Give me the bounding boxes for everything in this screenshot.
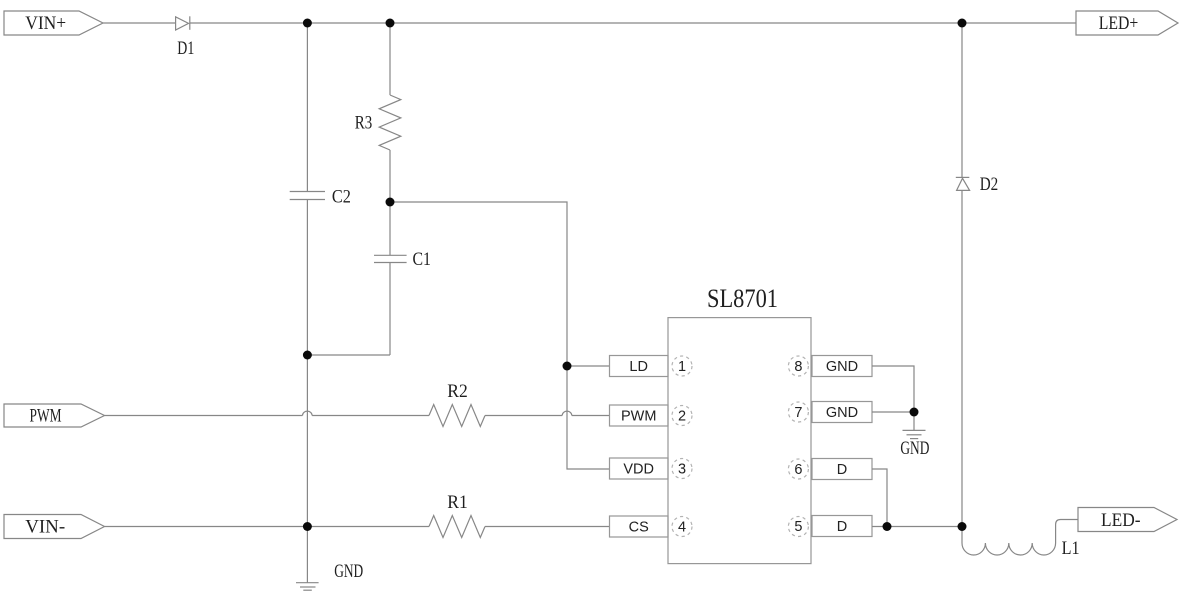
wire VIN+ to D1 — [103, 22, 176, 24]
svg-text:L1: L1 — [1062, 538, 1080, 559]
svg-text:GND: GND — [334, 561, 363, 582]
svg-text:LED+: LED+ — [1099, 13, 1139, 34]
pin 8 GND — [788, 356, 872, 377]
ground at input — [296, 527, 363, 591]
svg-text:4: 4 — [678, 520, 686, 536]
svg-text:3: 3 — [678, 462, 686, 478]
svg-text:SL8701: SL8701 — [707, 284, 778, 313]
svg-text:R3: R3 — [355, 113, 373, 134]
connector LED- — [1078, 508, 1177, 532]
resistor R2 — [429, 381, 485, 427]
svg-text:VDD: VDD — [623, 462, 654, 478]
svg-text:2: 2 — [678, 409, 686, 425]
wire R3 branch vertical x=390 top — [389, 23, 391, 95]
connector VIN- — [4, 515, 105, 539]
svg-text:PWM: PWM — [30, 406, 62, 427]
svg-text:5: 5 — [794, 519, 802, 535]
svg-text:GND: GND — [900, 438, 929, 459]
pin 4 CS — [610, 516, 693, 537]
wire pin 7 to ground node — [872, 411, 914, 413]
wire PWM to pin 2 with hops — [105, 411, 610, 415]
pin 1 LD — [610, 356, 693, 377]
ground GND near IC — [900, 412, 929, 459]
node junction at top rail x=390 — [386, 19, 395, 28]
svg-text:CS: CS — [629, 520, 649, 536]
node junction LD branch — [563, 362, 572, 371]
capacitor C1 — [374, 202, 431, 355]
pin 3 VDD — [610, 458, 693, 479]
svg-text:D: D — [837, 462, 847, 478]
svg-text:C2: C2 — [332, 186, 351, 207]
wire LD branch — [567, 365, 610, 367]
node junction pin5/pin6 — [883, 522, 892, 531]
inductor L1 — [962, 520, 1080, 560]
node junction D2/L1 — [958, 522, 967, 531]
wire input rail vertical x=307 — [306, 23, 308, 527]
svg-text:7: 7 — [794, 405, 802, 421]
svg-text:LED-: LED- — [1101, 510, 1141, 531]
svg-text:D2: D2 — [980, 174, 999, 195]
svg-text:C1: C1 — [412, 249, 431, 270]
connector LED+ — [1076, 11, 1178, 35]
IC U1 SL8701 body — [668, 284, 811, 564]
svg-text:GND: GND — [826, 405, 858, 421]
node junction at top rail x=962 — [958, 19, 967, 28]
svg-text:VIN-: VIN- — [25, 517, 65, 538]
svg-text:GND: GND — [826, 359, 858, 375]
wire VIN- to CS — [105, 526, 610, 528]
svg-text:D: D — [837, 519, 847, 535]
wire C1 bottom to input rail — [307, 354, 390, 356]
pin 2 PWM — [610, 405, 693, 426]
svg-text:LD: LD — [629, 359, 648, 375]
connector PWM — [4, 404, 105, 427]
diode D1 — [176, 16, 195, 59]
resistor R3 — [355, 95, 401, 202]
pin 7 GND — [788, 402, 872, 423]
capacitor C2 — [290, 186, 351, 207]
svg-text:PWM: PWM — [621, 409, 656, 425]
wire R3 bottom to VDD branch — [390, 202, 610, 469]
wire pin 5 to inductor node — [872, 526, 962, 528]
node junction ground near IC — [910, 408, 919, 417]
svg-text:8: 8 — [794, 359, 802, 375]
svg-text:1: 1 — [678, 359, 686, 375]
resistor R1 — [429, 492, 485, 538]
wire pin 8 to ground node — [872, 366, 914, 412]
diode D2 — [956, 23, 998, 527]
svg-text:R1: R1 — [447, 492, 468, 513]
svg-text:D1: D1 — [177, 38, 194, 59]
node junction input rail / C1 bottom — [303, 351, 312, 360]
svg-text:R2: R2 — [447, 381, 468, 402]
svg-text:6: 6 — [794, 462, 802, 478]
node junction at top rail x=307 — [303, 19, 312, 28]
wire pin 6 to pin 5 node — [872, 469, 887, 527]
node junction R3/C1/VDD — [386, 198, 395, 207]
svg-text:VIN+: VIN+ — [25, 13, 66, 34]
pin 6 D — [788, 459, 872, 480]
connector VIN+ — [4, 11, 103, 35]
pin 5 D — [788, 516, 872, 537]
wire D1 to LED+ (top rail) — [190, 22, 1076, 24]
node junction VIN- rail — [303, 522, 312, 531]
